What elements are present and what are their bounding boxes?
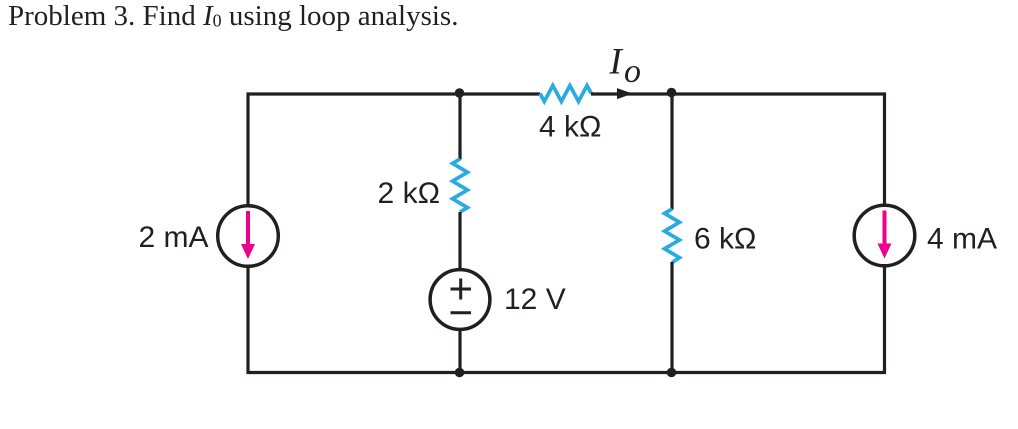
current source I2 arrow (magenta down) xyxy=(883,211,887,246)
svg-text:2 mA: 2 mA xyxy=(138,221,208,254)
voltage source V1 12 V (circle) xyxy=(430,270,490,330)
wire top-right L (top wire from resistor + right vertical upper) xyxy=(591,94,885,205)
wire branch2 middle (2k resistor to voltage source) xyxy=(458,212,461,269)
svg-text:Problem 3. Find I0 using loop: Problem 3. Find I0 using loop analysis. xyxy=(8,0,458,32)
wire branch2 lower (voltage source to bottom node) xyxy=(458,331,461,373)
resistor R2 2 kOhm (vertical zigzag) xyxy=(453,159,468,212)
wire bottom U (left vertical lower, bottom wire, right vertical lower) xyxy=(248,267,885,373)
svg-text:2 kΩ: 2 kΩ xyxy=(378,177,440,210)
current source I2 4 mA (circle) xyxy=(854,205,915,266)
voltage source minus sign xyxy=(451,311,472,314)
resistor R1 4 kOhm (horizontal zigzag) xyxy=(540,86,591,102)
svg-text:6 kΩ: 6 kΩ xyxy=(694,223,756,256)
current source I1 arrow (magenta down) xyxy=(246,211,250,246)
current source I1 2 mA (circle) xyxy=(218,206,279,267)
svg-text:o: o xyxy=(624,53,641,90)
svg-text:12 V: 12 V xyxy=(504,283,566,316)
resistor R3 6 kOhm (vertical zigzag) xyxy=(665,209,680,263)
current arrow Io (black arrowhead on top wire) xyxy=(617,88,633,99)
node D (bottom node at branch3) xyxy=(667,368,677,378)
wire top-left L (left vertical upper + top wire to 4k resistor) xyxy=(248,94,540,206)
svg-text:4 kΩ: 4 kΩ xyxy=(539,111,601,144)
node A (top node at branch2) xyxy=(455,88,465,98)
voltage source plus sign xyxy=(451,279,472,300)
wire branch3 upper (top node to 6k resistor) xyxy=(670,94,673,210)
node B (top node at branch3) xyxy=(667,88,677,98)
node C (bottom node at branch2) xyxy=(455,368,465,378)
svg-text:I: I xyxy=(609,42,624,83)
wire branch3 lower (6k resistor to bottom node) xyxy=(670,262,673,373)
wire branch2 upper (top node to 2k resistor) xyxy=(458,94,461,160)
svg-text:4 mA: 4 mA xyxy=(927,223,997,256)
